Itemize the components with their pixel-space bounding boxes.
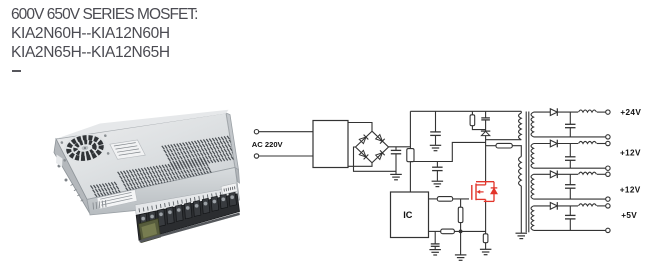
wire aux winding to ground xyxy=(520,186,522,233)
wire diode to filter node S1 (+24V) xyxy=(557,111,578,113)
resistor R3 aux feed xyxy=(486,145,496,147)
wire filter to bridge top xyxy=(348,123,372,132)
resistor R7 current sense xyxy=(483,234,488,243)
wire choke to terminal S1 (+24V) xyxy=(597,111,606,113)
wire HV rail xyxy=(410,110,521,112)
capacitor C2 vcc xyxy=(436,162,438,168)
wire AC N to filter xyxy=(259,155,313,157)
wire secondary top S2 (+12V) xyxy=(534,143,551,145)
transformer T1 aux winding xyxy=(519,157,522,187)
bridge rectifier BR1 xyxy=(356,131,389,163)
ground bridge cap xyxy=(390,173,402,175)
wire R1 to IC vcc xyxy=(409,162,411,192)
wire vcc step to aux xyxy=(410,142,485,161)
wire diode to filter node S4 (+5V) xyxy=(557,205,578,207)
wire gate xyxy=(453,198,469,200)
svg-text:+12V: +12V xyxy=(620,185,641,194)
EMI filter block xyxy=(313,121,348,168)
transistor Q1 MOSFET (red) xyxy=(471,185,473,200)
ground gate divider xyxy=(455,254,467,256)
inductor L4 output choke xyxy=(579,204,597,206)
diode D5 clamp xyxy=(481,130,490,132)
wire HV rail left drop xyxy=(409,111,411,148)
node AC terminal N xyxy=(254,154,258,158)
transformer T1 secondary S2 (+12V) xyxy=(531,144,534,169)
ground C2 xyxy=(432,180,444,182)
wire choke to terminal S3 (+12V) xyxy=(597,173,606,175)
capacitor C1 bridge output xyxy=(395,147,397,151)
diode D4 (bridge) xyxy=(375,150,384,159)
wire return rail S1 (+24V) xyxy=(534,136,606,138)
node output terminal +24V xyxy=(606,110,610,114)
transformer T1 secondary S4 (+5V) xyxy=(531,206,534,231)
diode D3 (bridge) xyxy=(359,150,368,159)
capacitor C4 snubber xyxy=(485,111,487,118)
wire sense line xyxy=(454,230,485,232)
wire drain vertical xyxy=(485,136,487,182)
inductor L2 output choke xyxy=(579,141,597,143)
diode D1 (bridge) xyxy=(359,135,368,144)
wire bridge positive output xyxy=(389,146,411,148)
wire choke to terminal S4 (+5V) xyxy=(597,205,606,207)
ground C3 xyxy=(430,144,441,146)
transformer T1 primary xyxy=(520,111,522,113)
svg-text:+12V: +12V xyxy=(620,148,641,157)
node return terminal S4 (+5V) xyxy=(606,228,610,232)
node junction dot xyxy=(459,230,463,234)
wire return rail S4 (+5V) xyxy=(534,229,606,231)
svg-text:AC 220V: AC 220V xyxy=(252,140,284,149)
resistor R1 startup xyxy=(407,149,414,162)
op-amp U1 PWM controller IC xyxy=(391,192,429,238)
wire AC L to filter xyxy=(259,131,313,133)
wire diode to filter node S2 (+12V) xyxy=(557,143,578,145)
svg-text:+24V: +24V xyxy=(620,108,641,117)
capacitor C8 output filter xyxy=(569,206,571,216)
svg-text:IC: IC xyxy=(403,210,413,220)
wire secondary top S3 (+12V) xyxy=(534,173,551,175)
diode D9 rectifier xyxy=(550,203,557,210)
node return terminal S3 (+12V) xyxy=(606,197,610,201)
node output terminal +5V xyxy=(606,204,610,208)
diode D6 rectifier xyxy=(550,109,557,116)
node output terminal +12V xyxy=(606,172,610,176)
capacitor C6 output filter xyxy=(569,144,571,157)
capacitor C7 output filter xyxy=(569,174,571,184)
wire primary bottom to drain xyxy=(486,139,522,141)
node return terminal S1 (+24V) xyxy=(606,135,610,139)
resistor R5 gate-source xyxy=(460,199,462,207)
ground C9 xyxy=(429,249,441,251)
capacitor C5 output filter xyxy=(569,112,571,124)
resistor R6 sense feedback xyxy=(429,230,441,232)
resistor R4 gate xyxy=(429,198,438,200)
diode D8 rectifier xyxy=(550,171,557,178)
transformer T1 secondary S3 (+12V) xyxy=(531,174,534,199)
diode D7 rectifier xyxy=(550,140,557,147)
ground aux xyxy=(516,232,528,234)
wire return rail S3 (+12V) xyxy=(534,198,606,200)
wire choke to terminal S2 (+12V) xyxy=(597,143,606,145)
wire diode to filter node S3 (+12V) xyxy=(557,173,578,175)
wire junction to ground xyxy=(460,231,462,254)
wire return rail S2 (+12V) xyxy=(534,167,606,169)
inductor L3 output choke xyxy=(579,172,597,174)
transformer T1 core xyxy=(525,112,527,233)
transformer T1 secondary S1 (+24V) xyxy=(531,112,534,137)
wire source down xyxy=(485,202,487,234)
capacitor C3 bulk xyxy=(435,111,437,132)
wire filter to bridge bottom xyxy=(348,163,372,167)
wire bridge negative to ground rail xyxy=(354,147,396,171)
svg-text:+5V: +5V xyxy=(621,211,637,220)
resistor R2 snubber xyxy=(471,111,473,115)
ground source xyxy=(480,248,492,250)
wire secondary top S4 (+5V) xyxy=(534,205,551,207)
capacitor C9 IC bypass xyxy=(434,231,436,244)
node output terminal +12V xyxy=(606,141,610,145)
node return terminal S2 (+12V) xyxy=(606,166,610,170)
node AC terminal L xyxy=(254,130,258,134)
diode D2 (bridge) xyxy=(375,134,384,143)
inductor L1 output choke xyxy=(579,110,597,112)
wire secondary top S1 (+24V) xyxy=(534,111,551,113)
